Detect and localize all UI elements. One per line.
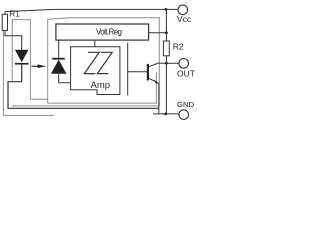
svg-text:Volt.Reg: Volt.Reg (96, 28, 122, 37)
svg-text:GND: GND (177, 100, 195, 109)
svg-text:OUT: OUT (177, 68, 195, 78)
svg-text:Amp: Amp (91, 80, 111, 91)
svg-text:R2: R2 (173, 41, 184, 51)
svg-text:Vcc: Vcc (177, 14, 192, 24)
svg-text:R1: R1 (9, 10, 20, 19)
